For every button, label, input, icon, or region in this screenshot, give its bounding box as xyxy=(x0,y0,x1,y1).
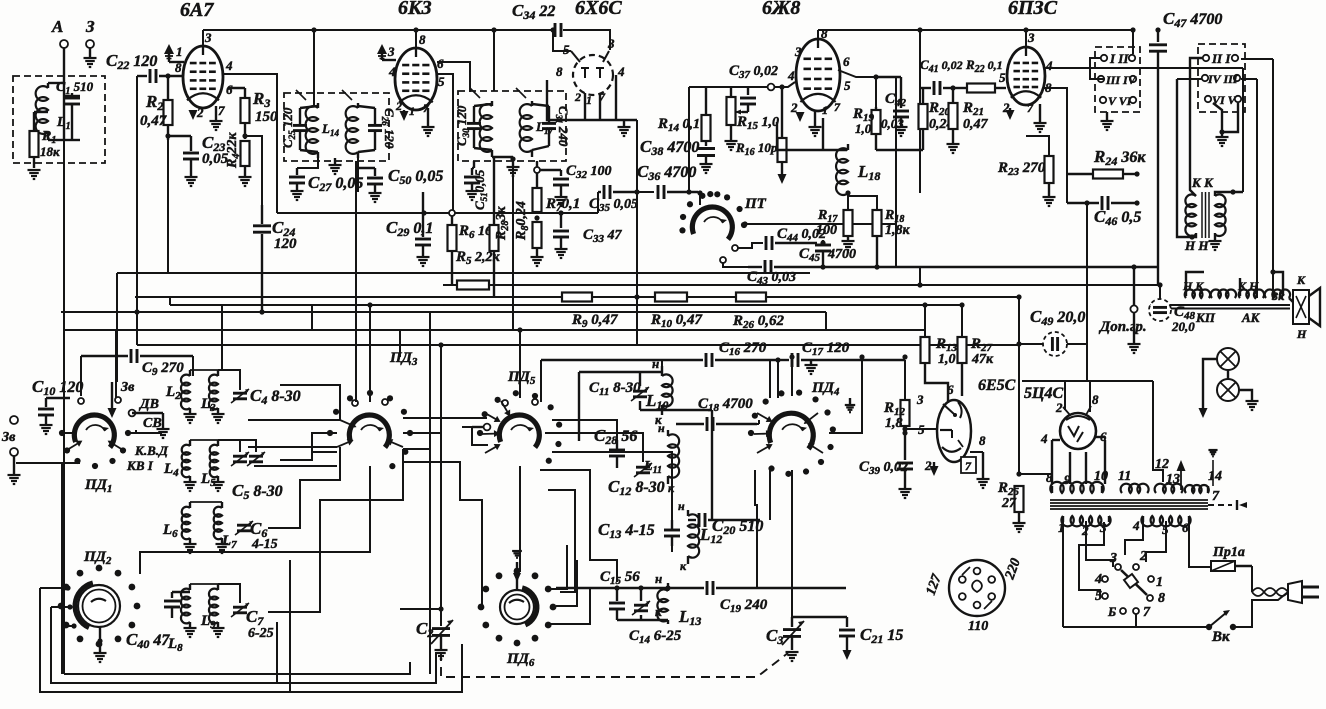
wire llw35 xyxy=(276,622,278,683)
arrow under lamps xyxy=(1199,404,1208,418)
label C16 270 xyxy=(719,340,767,358)
text pin 5 6X6S xyxy=(563,42,570,57)
text 127 xyxy=(924,572,946,598)
text III IV xyxy=(1105,73,1137,87)
svg-text:C41 0,02: C41 0,02 xyxy=(920,57,963,75)
svg-text:2: 2 xyxy=(924,458,932,473)
text L8 xyxy=(167,636,183,654)
text R3 value xyxy=(255,109,278,125)
svg-text:R9 0,47: R9 0,47 xyxy=(571,312,618,330)
text pin 4 rect xyxy=(1040,431,1048,446)
wire IF1 primary down xyxy=(297,158,318,168)
svg-text:R24 36к: R24 36к xyxy=(1093,147,1146,168)
ground under R15 xyxy=(725,141,738,150)
wire PD4 wires l xyxy=(757,423,759,425)
label L14 xyxy=(321,121,339,138)
grid stopper node xyxy=(768,84,775,91)
svg-text:ПД5: ПД5 xyxy=(507,369,536,387)
wire vert x962 R27 xyxy=(961,305,963,337)
capacitor C21 xyxy=(839,617,855,649)
wire C43 wire xyxy=(723,262,748,267)
ground under OT xyxy=(1209,241,1222,250)
svg-text:C16 270: C16 270 xyxy=(719,340,767,358)
label R20 0,24 xyxy=(928,100,951,118)
wire pw1 xyxy=(1062,522,1064,627)
wire 6Zh8 top rail xyxy=(818,29,1133,31)
text pin 7 eye xyxy=(965,459,972,473)
text pin 4 6K3 xyxy=(388,64,396,79)
wire 6X6S down to bus xyxy=(636,192,638,345)
label C29 0,1 xyxy=(386,218,433,239)
wire vert x400 xyxy=(399,330,401,357)
band switch PD4 xyxy=(748,390,836,477)
svg-text:C9 270: C9 270 xyxy=(142,360,184,378)
text pin 5 6P3S xyxy=(999,70,1006,85)
label C5 8-30 xyxy=(232,481,283,502)
coil pair L4 L5 xyxy=(182,440,218,481)
ground under C51 xyxy=(466,191,479,200)
ground under Z xyxy=(84,58,97,67)
text p5 xyxy=(1162,522,1169,537)
wire PD3 wires e xyxy=(403,448,430,450)
text pin 2 6K3 xyxy=(395,99,402,113)
wire llw1 xyxy=(136,312,138,345)
text C24 value xyxy=(274,236,297,252)
junction xyxy=(311,27,316,32)
text pin 8 6X6S xyxy=(556,64,563,79)
switch Vk xyxy=(1206,610,1236,630)
svg-text:8: 8 xyxy=(556,64,563,79)
wire C7 wire xyxy=(218,584,240,603)
junction xyxy=(1084,200,1089,205)
svg-text:5: 5 xyxy=(1095,589,1102,604)
capacitor C29 xyxy=(415,192,431,256)
junction xyxy=(779,84,784,89)
svg-text:18к: 18к xyxy=(40,144,60,159)
label C1 510 xyxy=(56,79,94,97)
band switch PD6 xyxy=(478,568,557,647)
label C10 120 xyxy=(32,377,83,398)
junction xyxy=(71,623,76,628)
ground under R7 xyxy=(531,257,544,266)
label L10 xyxy=(645,391,668,412)
capacitor C20 xyxy=(688,513,760,527)
junction xyxy=(367,302,372,307)
label L1 xyxy=(56,115,71,132)
svg-text:8: 8 xyxy=(1046,470,1053,485)
dial lamp 2 xyxy=(1217,379,1239,401)
ground under C38 xyxy=(700,164,713,173)
capacitor C16 xyxy=(541,353,781,367)
svg-text:н: н xyxy=(658,421,665,435)
mains plug xyxy=(1288,581,1319,603)
svg-text:C12 8-30: C12 8-30 xyxy=(608,477,665,498)
svg-text:R21: R21 xyxy=(962,100,984,118)
junction xyxy=(1016,471,1021,476)
text PD5 label xyxy=(507,369,536,387)
wire detector line right xyxy=(537,212,598,214)
label L12 xyxy=(699,525,722,546)
wire 6K3 pin5 drop xyxy=(437,74,453,213)
text C30 120 label xyxy=(454,105,471,146)
text pin 5 eye xyxy=(918,422,925,437)
eye heater arrow xyxy=(930,462,939,476)
wire coil col wires xyxy=(552,420,617,440)
wire llw3 xyxy=(192,356,194,376)
svg-text:Доп.гр.: Доп.гр. xyxy=(1098,319,1147,335)
IF2 coil L17 xyxy=(520,101,532,157)
capacitor C43 xyxy=(748,260,1158,274)
text R13 value xyxy=(938,352,956,367)
label R1 18k xyxy=(41,129,56,146)
svg-text:R80,24: R80,24 xyxy=(514,201,531,241)
svg-text:L6: L6 xyxy=(162,522,178,540)
output transformer leads xyxy=(1177,58,1243,240)
svg-text:127: 127 xyxy=(924,572,946,598)
wire bus y330 xyxy=(65,329,925,331)
text Dop gr xyxy=(1098,319,1147,335)
text s2 xyxy=(1139,549,1147,564)
label C44 0,02 xyxy=(777,226,826,244)
label C11 8-30 xyxy=(589,380,641,398)
capacitor C18 xyxy=(676,417,757,431)
capacitor C44 xyxy=(766,236,817,250)
text tube label 6E5S xyxy=(978,377,1016,394)
text tube label 6K3 xyxy=(398,0,432,19)
label R27 47k xyxy=(970,336,993,354)
text I II xyxy=(1109,51,1129,66)
label C18 4700 xyxy=(698,396,753,414)
rectifier links xyxy=(1052,437,1105,484)
label R9 0,47 xyxy=(571,312,618,330)
potentiometer R15 xyxy=(727,87,743,140)
svg-text:C30 120: C30 120 xyxy=(454,105,471,146)
text R28 label xyxy=(494,206,511,241)
wire 6Zh8 pin6 wire xyxy=(838,70,896,77)
6K3 cathode ground xyxy=(422,108,435,136)
wire PD3 wires d xyxy=(403,432,441,434)
svg-text:3: 3 xyxy=(1027,30,1035,45)
text k L13 xyxy=(655,604,662,619)
svg-text:0,47: 0,47 xyxy=(963,117,989,132)
text pin 7 6P3S xyxy=(1027,101,1034,115)
label C17 120 xyxy=(802,340,850,358)
svg-text:6Е5С: 6Е5С xyxy=(978,377,1016,394)
resistor R8 on bus xyxy=(457,281,489,290)
ground under C32 xyxy=(555,197,568,206)
svg-text:11: 11 xyxy=(1118,469,1131,484)
text K N marks spk xyxy=(1237,279,1259,293)
svg-text:6: 6 xyxy=(1182,520,1189,535)
terminal Zv1 xyxy=(10,416,18,424)
wire x1153 drop xyxy=(1153,381,1163,482)
text pin 1 6Zh8 xyxy=(822,103,828,117)
svg-text:R26 0,62: R26 0,62 xyxy=(732,313,785,331)
svg-text:C17 120: C17 120 xyxy=(802,340,850,358)
label C39 0,02 xyxy=(859,459,908,477)
text s8 xyxy=(1158,591,1165,606)
wire R23 feed xyxy=(1026,136,1049,156)
svg-text:ІІІ ІV: ІІІ ІV xyxy=(1105,73,1137,87)
label C28 56 xyxy=(594,426,637,447)
IF transformer 2 shield xyxy=(458,91,566,161)
svg-text:2: 2 xyxy=(1055,400,1063,415)
label C43 0,03 xyxy=(747,269,796,287)
text p4 xyxy=(1132,518,1140,533)
label C3 xyxy=(766,626,783,647)
svg-text:C36 4700: C36 4700 xyxy=(637,162,696,183)
wire right vertical x896 xyxy=(895,77,897,267)
text Vk xyxy=(1211,629,1230,645)
selector bar xyxy=(1121,570,1147,595)
capacitor C22 xyxy=(137,69,183,83)
6P3S heater arrow xyxy=(1006,108,1015,120)
svg-text:14: 14 xyxy=(1208,469,1222,484)
resistor R25 xyxy=(1015,486,1024,522)
svg-text:6Ж8: 6Ж8 xyxy=(762,0,800,19)
label C15 56 xyxy=(600,569,640,587)
capacitor C39 xyxy=(897,430,913,488)
triode-hexode tube 6A7 xyxy=(183,46,223,108)
ground under C33 xyxy=(555,249,568,258)
resistor R13 xyxy=(921,337,949,403)
svg-text:н: н xyxy=(655,571,662,586)
label C19 240 xyxy=(720,597,768,615)
text pin 6 6K3 xyxy=(437,56,444,71)
text p6 xyxy=(1182,520,1189,535)
text pin 6 xyxy=(226,82,233,97)
text pin 8 6Zh8 xyxy=(821,26,828,41)
wire llw34 xyxy=(140,466,370,574)
label R16 10p xyxy=(735,140,778,158)
wire C48 feed xyxy=(1159,285,1161,299)
ground under R23 xyxy=(1043,197,1056,206)
wire coil col wires4 xyxy=(540,470,617,582)
wire antenna bottom xyxy=(64,662,410,674)
svg-text:ПД2: ПД2 xyxy=(83,549,112,567)
text Zk xyxy=(1271,289,1285,303)
PD2 ground xyxy=(94,627,107,662)
text pin 4 6P3S xyxy=(1045,58,1053,73)
svg-text:4: 4 xyxy=(787,68,795,83)
text pin 4 xyxy=(225,58,233,73)
wire PD4 wires r xyxy=(829,360,862,433)
svg-text:C21 15: C21 15 xyxy=(860,625,903,646)
svg-text:C13 4-15: C13 4-15 xyxy=(598,520,655,541)
junction xyxy=(820,264,825,269)
wire 6A7 pin3 to top rail xyxy=(202,30,204,46)
band switch PD3 xyxy=(327,390,413,469)
text pin 2 6X6S xyxy=(574,90,581,104)
svg-text:L14: L14 xyxy=(321,121,339,138)
label C40 47 xyxy=(126,630,170,651)
svg-text:C37 0,02: C37 0,02 xyxy=(729,63,778,81)
wire L10 top wire xyxy=(661,360,663,366)
wire C5 wire2 xyxy=(239,440,241,452)
svg-text:R20: R20 xyxy=(928,100,951,118)
wire 6X6S frame right drop xyxy=(636,120,638,192)
text C31 240 label xyxy=(554,106,571,147)
wire llw18 xyxy=(268,449,403,612)
gang dashed link xyxy=(441,652,788,677)
antenna coupling box xyxy=(13,76,105,163)
terminal A (antenna) xyxy=(60,40,68,76)
svg-text:C38 4700: C38 4700 xyxy=(640,137,699,158)
svg-text:А: А xyxy=(51,17,63,36)
wire R3 junction to C24 line xyxy=(245,136,262,205)
ground dop gr xyxy=(1128,313,1141,353)
ground under C23 xyxy=(185,177,198,186)
trimmer C5a xyxy=(231,452,249,466)
junction xyxy=(413,27,418,32)
PD1 entry arrow xyxy=(108,382,117,418)
ground under L8 L9 right xyxy=(212,628,225,637)
wire C42 block top xyxy=(875,77,877,107)
variable capacitor C3 xyxy=(782,617,847,650)
trimmer C5b xyxy=(247,452,265,466)
inductor L18 xyxy=(836,144,851,196)
text R7 label xyxy=(545,196,580,214)
text pin 3 6X6S xyxy=(607,36,615,51)
text pin 2 6Zh8 xyxy=(790,100,798,115)
text R1 value xyxy=(40,144,60,159)
wire pw6 xyxy=(1189,522,1211,567)
junction xyxy=(874,264,879,269)
wire anode drop x920 xyxy=(919,30,921,193)
wire R18 top wire xyxy=(848,196,877,210)
svg-text:4-15: 4-15 xyxy=(251,537,278,552)
text pin 8 rect xyxy=(1092,392,1099,407)
svg-text:4700: 4700 xyxy=(827,247,856,262)
selector contact 7 xyxy=(1133,608,1139,614)
text pin 7 6X6S xyxy=(599,90,606,104)
text 220 xyxy=(1002,557,1024,583)
ground under C42 xyxy=(895,127,908,136)
arrow below R16 xyxy=(778,170,787,184)
wire detector line xyxy=(277,212,537,214)
text 9 xyxy=(1064,472,1071,487)
svg-text:C25 120: C25 120 xyxy=(280,107,297,148)
ground under C17 xyxy=(805,365,818,374)
wire left bus verticals a xyxy=(116,273,118,382)
resistor R10 xyxy=(655,293,687,302)
wire Zv wire xyxy=(16,462,80,464)
wire x1019 feeder xyxy=(1018,297,1020,474)
text pin 6 6Zh8 xyxy=(843,54,850,69)
svg-text:L11: L11 xyxy=(643,459,662,476)
wire llw32 xyxy=(550,545,567,589)
svg-text:н: н xyxy=(652,356,659,371)
capacitor C45 xyxy=(815,240,831,267)
wire pin2 stub xyxy=(1064,381,1066,410)
wire llw15 xyxy=(280,385,340,420)
coil L1 xyxy=(36,83,64,140)
resistor R4 xyxy=(241,141,250,176)
svg-text:ІV ІІІ: ІV ІІІ xyxy=(1207,72,1239,86)
svg-text:4: 4 xyxy=(1094,572,1102,587)
band switch PD5 xyxy=(477,390,562,464)
6X6S socket frame xyxy=(547,75,637,120)
wire pw4 xyxy=(1125,522,1143,555)
capacitor C37 xyxy=(740,87,756,112)
ground under L6 L7 right xyxy=(216,544,229,553)
wire llw21 xyxy=(462,427,488,445)
svg-text:4: 4 xyxy=(1132,518,1140,533)
text KV1 xyxy=(126,458,154,473)
IF1 cap C25 xyxy=(293,106,318,152)
svg-text:0,03: 0,03 xyxy=(881,116,904,131)
svg-text:C5 8-30: C5 8-30 xyxy=(232,481,283,502)
wire 6P3S anode wire xyxy=(1043,67,1243,69)
text s3 xyxy=(1109,551,1117,566)
IF1 center ground xyxy=(329,158,342,174)
svg-text:1,8: 1,8 xyxy=(885,416,903,431)
text R19 value xyxy=(855,121,872,136)
svg-text:120: 120 xyxy=(274,236,297,252)
svg-text:Б: Б xyxy=(1107,604,1116,619)
text VI V xyxy=(1212,93,1237,107)
6P3S cathode ground xyxy=(1034,104,1047,132)
junction xyxy=(61,623,66,628)
capacitor C34 xyxy=(555,23,561,37)
speaker xyxy=(1293,288,1320,326)
coil pair L8 L9 xyxy=(181,584,218,627)
ground under L6 L7 left xyxy=(184,544,197,553)
resistor R14 xyxy=(702,87,711,146)
label C12 8-30 xyxy=(608,477,665,498)
junction xyxy=(1157,282,1162,287)
wire C5 wire xyxy=(218,440,256,452)
wire bus y345 xyxy=(137,344,1019,346)
svg-text:C10 120: C10 120 xyxy=(32,377,83,398)
wire pin8 stub xyxy=(1089,381,1091,412)
wire PD2 contact w2 xyxy=(51,606,70,608)
capacitor C40 xyxy=(164,592,190,618)
label L18 xyxy=(857,162,880,183)
label C49 20,0 xyxy=(1030,307,1085,328)
junction xyxy=(917,27,922,32)
box1 contacts xyxy=(1098,55,1136,103)
text PT label xyxy=(744,196,767,212)
text C6 value xyxy=(251,537,278,552)
svg-text:4: 4 xyxy=(617,64,625,79)
text k L10 xyxy=(655,412,662,427)
junction xyxy=(134,309,139,314)
6A7 pin7 ground xyxy=(210,106,223,130)
capacitor C27 xyxy=(289,168,305,190)
text V VI xyxy=(1108,94,1133,108)
transformer secondary 8-10 xyxy=(1050,482,1103,493)
text pin 5 6Zh8 xyxy=(844,78,851,93)
variable capacitor C2 xyxy=(431,620,453,650)
junction xyxy=(550,27,555,32)
supply arrow at 6A7 pin1 xyxy=(164,44,184,62)
ground DV xyxy=(157,429,170,438)
twisted cord xyxy=(1252,588,1288,596)
svg-text:C34 22: C34 22 xyxy=(512,1,555,22)
svg-text:8: 8 xyxy=(1092,392,1099,407)
svg-text:ПД3: ПД3 xyxy=(389,350,418,368)
resistor R3 xyxy=(228,88,250,139)
terminal dop gr xyxy=(1130,267,1137,313)
text IV III xyxy=(1207,72,1239,86)
resistor R6 xyxy=(448,213,457,285)
label L11 xyxy=(643,459,662,476)
junction circle xyxy=(449,210,455,216)
junction xyxy=(859,354,864,359)
svg-text:6: 6 xyxy=(843,54,850,69)
text pin 6 eye xyxy=(947,382,954,397)
